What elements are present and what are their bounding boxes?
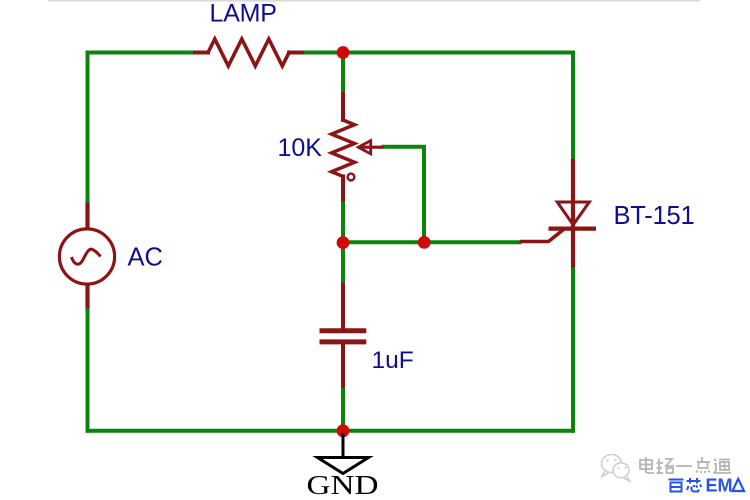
wire right rail upper segment xyxy=(571,51,575,162)
potentiometer indicator circle xyxy=(348,174,355,181)
svg-text:1uF: 1uF xyxy=(372,347,414,374)
一 xyxy=(676,465,692,467)
wire cap branch lower xyxy=(341,388,345,431)
watermark text 电路一点通 xyxy=(640,457,731,473)
wire cap branch upper xyxy=(341,243,345,283)
node C (mid-right junction) xyxy=(418,236,431,249)
node B (mid-left junction) xyxy=(337,236,350,249)
wire top rail left segment xyxy=(86,51,197,55)
AC source V1 xyxy=(59,203,114,309)
top gray border line xyxy=(48,0,700,2)
通 xyxy=(714,459,717,461)
capacitor 1uF xyxy=(320,283,367,389)
电 xyxy=(640,460,652,469)
lamp (resistor) LAMP xyxy=(195,39,302,66)
wire mid rail (gate net) xyxy=(343,240,522,244)
wire left rail upper segment xyxy=(86,51,90,204)
svg-text:LAMP: LAMP xyxy=(210,0,277,28)
potentiometer wiper arrow xyxy=(358,141,383,154)
svg-text:EM: EM xyxy=(706,476,733,496)
wire top rail right segment xyxy=(301,51,573,55)
wire pot branch lower xyxy=(341,199,345,242)
路 xyxy=(658,459,660,474)
svg-text:10K: 10K xyxy=(278,134,323,162)
watermark text 百芯 EMA xyxy=(669,478,702,492)
wire right rail lower segment xyxy=(571,265,575,433)
svg-text:GND: GND xyxy=(307,469,379,500)
wire left rail lower segment xyxy=(86,307,90,433)
thyristor BT-151 xyxy=(522,161,597,266)
wire pot branch upper xyxy=(341,53,345,95)
百 xyxy=(669,479,684,481)
wire bottom rail xyxy=(86,429,576,433)
node A (top junction) xyxy=(337,46,350,59)
watermark wechat icon xyxy=(602,455,630,482)
芯 xyxy=(687,480,701,482)
wire wiper net xyxy=(382,147,425,243)
svg-text:AC: AC xyxy=(128,244,163,272)
watermark delta xyxy=(733,479,745,491)
svg-text:BT-151: BT-151 xyxy=(614,202,695,230)
ground symbol xyxy=(318,433,369,474)
点 xyxy=(701,457,703,462)
node D (bottom junction) xyxy=(337,424,350,437)
potentiometer 10K body xyxy=(332,94,355,200)
